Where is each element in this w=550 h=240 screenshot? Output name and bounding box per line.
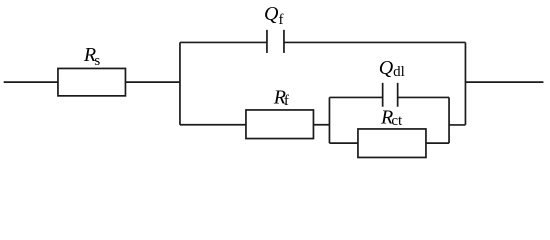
wire: top branch left segment xyxy=(180,41,267,43)
wire: inner top branch right segment xyxy=(398,96,449,98)
label Rs value xyxy=(83,44,101,69)
svg-text:Q: Q xyxy=(264,3,279,25)
label Qf value xyxy=(264,3,284,28)
capacitor Qf (CPE) left plate xyxy=(266,30,268,53)
node B: right vertical of outer parallel branch xyxy=(464,42,466,124)
svg-text:ct: ct xyxy=(391,113,403,129)
capacitor Qdl right plate xyxy=(397,83,399,107)
wire: inner top branch left segment xyxy=(329,96,382,98)
resistor Rf xyxy=(246,110,314,139)
wire: node C to Rct xyxy=(329,142,358,144)
wire: Rf to node C xyxy=(313,124,329,126)
resistor Rct xyxy=(358,129,426,158)
wire: Rs to node A xyxy=(125,81,180,83)
wire: bottom branch to Rf xyxy=(180,124,246,126)
label Rf value xyxy=(273,87,289,110)
node D: right vertical of inner parallel branch xyxy=(448,97,450,143)
wire: output lead xyxy=(465,81,543,83)
svg-text:s: s xyxy=(94,53,100,69)
node C: left vertical of inner parallel branch xyxy=(328,97,330,143)
wire: node D to node B xyxy=(449,124,465,126)
svg-text:f: f xyxy=(279,12,284,28)
node A: left vertical of outer parallel branch xyxy=(179,42,181,124)
label Qdl value xyxy=(379,57,405,80)
wire: Rct to node D xyxy=(426,142,449,144)
resistor Rs xyxy=(58,68,126,95)
capacitor Qf (CPE) right plate xyxy=(283,30,285,53)
wire: top branch right segment xyxy=(284,41,466,43)
capacitor Qdl left plate xyxy=(382,83,384,107)
svg-text:f: f xyxy=(284,93,289,109)
svg-text:dl: dl xyxy=(393,64,405,80)
svg-text:Q: Q xyxy=(379,57,394,79)
label Rct value xyxy=(380,107,403,130)
wire: input lead xyxy=(4,81,58,83)
